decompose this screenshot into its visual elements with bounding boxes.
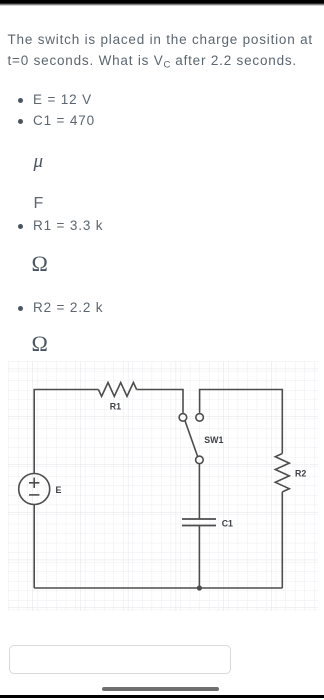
wire: E bottom to bottom wire	[33, 504, 35, 588]
bullet R2 = 2.2 k	[18, 306, 23, 311]
E plus sign	[29, 478, 39, 488]
svg-text:SW1: SW1	[204, 435, 223, 445]
answer input box	[9, 645, 231, 674]
wire: R2 to bottom right corner	[281, 492, 283, 588]
svg-text:E: E	[56, 485, 62, 495]
bullet C1 = 470	[18, 119, 23, 124]
Omega 2	[32, 331, 48, 357]
bullet R1 = 3.3 k	[18, 224, 23, 229]
junction node	[197, 585, 202, 590]
capacitor C1 bottom plate	[182, 525, 216, 527]
svg-text:R2: R2	[295, 469, 306, 479]
capacitor C1 top plate	[182, 518, 216, 520]
switch SW1 left throw circle	[179, 414, 187, 422]
resistor R2	[275, 454, 289, 492]
wire: left vertical top (E top to top wire)	[34, 390, 98, 474]
wire: bottom	[34, 587, 282, 589]
Omega 1	[32, 251, 48, 277]
home indicator	[102, 687, 219, 691]
switch SW1 pole circle	[196, 456, 204, 464]
bottom black bar	[0, 695, 324, 699]
svg-text:R1: R1	[110, 401, 121, 411]
wire: R1 to switch left throw	[137, 390, 183, 413]
wire: switch right throw up and right to R2	[200, 390, 283, 454]
F	[34, 193, 44, 214]
voltage source E circle	[19, 474, 50, 505]
mu symbol	[34, 151, 44, 173]
switch SW1 blade	[185, 420, 198, 457]
bullet E = 12 V	[18, 98, 23, 103]
question text	[8, 29, 313, 76]
wire: switch pole to capacitor	[198, 464, 200, 519]
E minus sign	[29, 494, 39, 496]
top status black bar	[0, 0, 324, 3]
switch SW1 right throw circle	[196, 414, 204, 422]
svg-text:C1: C1	[222, 519, 233, 529]
wire: capacitor to bottom wire	[198, 526, 200, 589]
circuit schematic	[8, 361, 318, 611]
resistor R1	[98, 383, 136, 397]
